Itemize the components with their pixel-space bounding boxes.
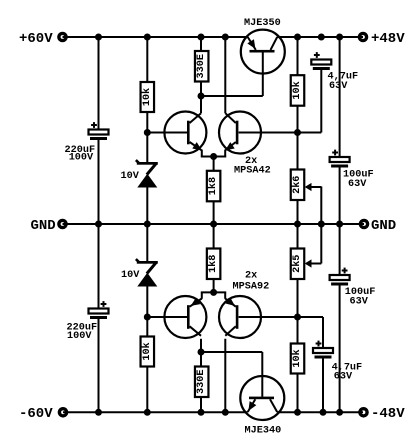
- svg-text:MJE350: MJE350: [244, 18, 281, 29]
- svg-text:1k8: 1k8: [207, 255, 219, 273]
- svg-text:+60V: +60V: [19, 31, 53, 47]
- svg-text:MPSA92: MPSA92: [233, 282, 270, 293]
- svg-text:2k5: 2k5: [291, 255, 303, 273]
- svg-text:2x: 2x: [245, 271, 257, 282]
- svg-text:10k: 10k: [291, 349, 303, 367]
- svg-text:63V: 63V: [348, 179, 367, 190]
- svg-text:330E: 330E: [196, 370, 207, 394]
- svg-text:2k6: 2k6: [291, 176, 303, 194]
- svg-text:10V: 10V: [121, 171, 140, 182]
- svg-text:100V: 100V: [69, 153, 94, 164]
- svg-text:330E: 330E: [196, 54, 207, 78]
- svg-text:1k8: 1k8: [207, 177, 219, 195]
- svg-text:MPSA42: MPSA42: [234, 166, 271, 177]
- svg-text:63V: 63V: [350, 297, 369, 308]
- svg-text:-60V: -60V: [19, 406, 53, 422]
- svg-text:GND: GND: [371, 218, 396, 234]
- svg-text:+48V: +48V: [371, 31, 405, 47]
- svg-text:63V: 63V: [329, 81, 348, 92]
- svg-text:63V: 63V: [334, 372, 353, 383]
- svg-text:10k: 10k: [141, 88, 153, 106]
- svg-text:10V: 10V: [121, 270, 140, 281]
- svg-text:100V: 100V: [67, 331, 92, 342]
- svg-text:-48V: -48V: [371, 406, 405, 422]
- svg-text:10k: 10k: [141, 342, 153, 360]
- svg-text:GND: GND: [30, 218, 55, 234]
- svg-text:10k: 10k: [291, 81, 303, 99]
- svg-text:MJE340: MJE340: [245, 426, 282, 437]
